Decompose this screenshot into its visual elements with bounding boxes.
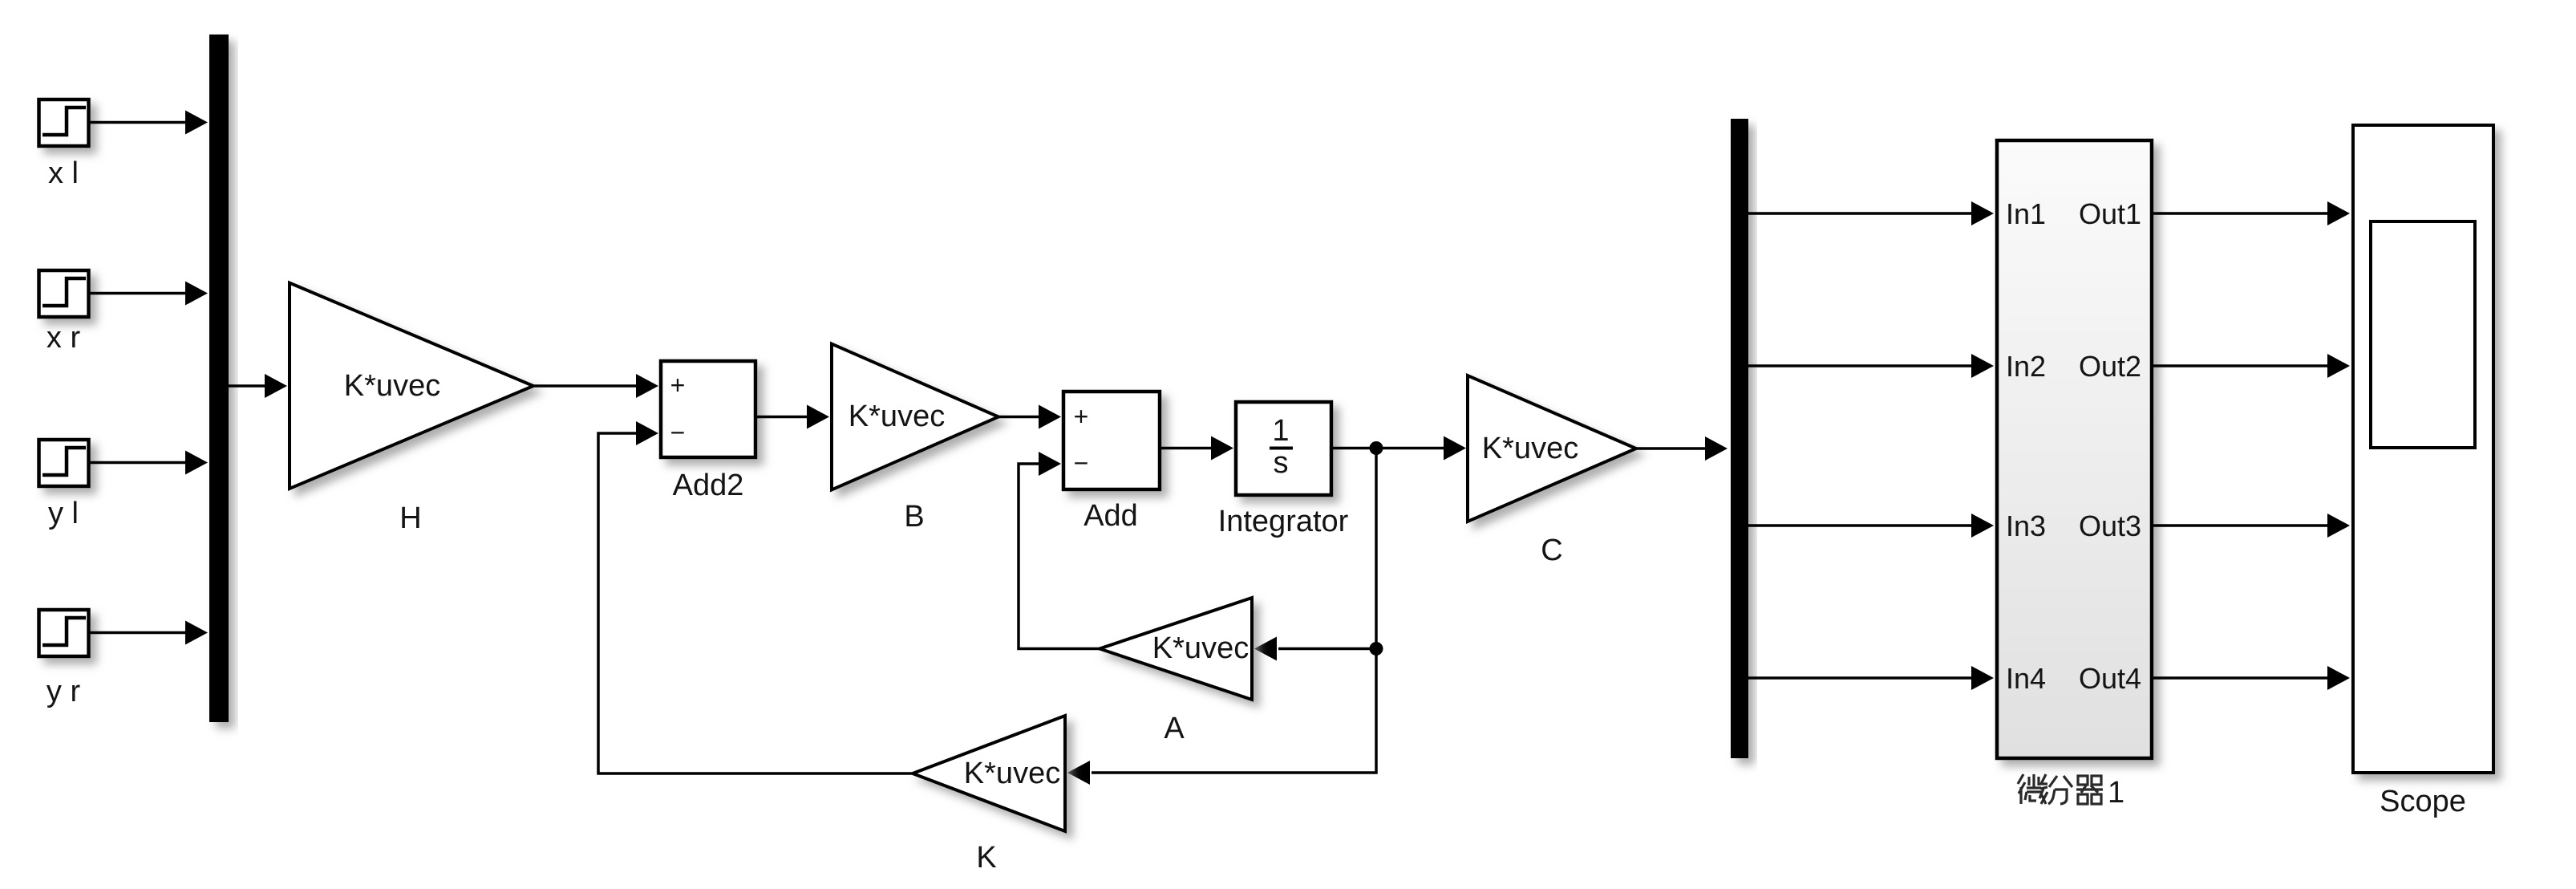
sum block Add2 <box>661 361 755 457</box>
wire demux to In3 <box>1748 524 1972 527</box>
label 微分器1 (drawn glyphs) <box>2018 774 2103 804</box>
svg-text:x l: x l <box>48 156 79 190</box>
subsystem block 微分器1 <box>1997 140 2152 758</box>
wire Out1 to scope <box>2152 212 2328 215</box>
svg-text:K*uvec: K*uvec <box>849 400 945 433</box>
svg-text:In1: In1 <box>2006 197 2046 230</box>
svg-text:Integrator: Integrator <box>1218 505 1349 538</box>
svg-text:Out2: Out2 <box>2079 350 2141 383</box>
svg-text:A: A <box>1164 712 1185 745</box>
svg-text:In4: In4 <box>2006 662 2046 695</box>
step block y l <box>39 440 89 486</box>
svg-text:In2: In2 <box>2006 350 2046 383</box>
svg-text:Out4: Out4 <box>2079 662 2141 695</box>
svg-text:B: B <box>904 500 924 534</box>
scope block <box>2353 125 2493 773</box>
svg-text:K*uvec: K*uvec <box>964 757 1060 790</box>
wire into gain K input <box>1067 761 1090 785</box>
node after integrator <box>1370 441 1383 455</box>
svg-text:−: − <box>670 418 686 447</box>
wire demux to In2 <box>1748 364 1972 367</box>
svg-text:1: 1 <box>1272 414 1289 448</box>
wire Out4 to scope <box>2152 676 2328 680</box>
wire Integrator to gain C <box>1331 447 1444 450</box>
gain B <box>832 344 998 490</box>
svg-text:Out1: Out1 <box>2079 197 2141 230</box>
svg-text:Out3: Out3 <box>2079 509 2141 542</box>
gain H <box>290 283 533 489</box>
svg-text:Scope: Scope <box>2380 785 2466 818</box>
scope screen <box>2371 221 2475 448</box>
svg-text:In3: In3 <box>2006 509 2046 542</box>
demux bar <box>1731 119 1748 758</box>
integrator block 1/s <box>1236 402 1331 495</box>
wire gain B to Add plus input <box>998 416 1039 419</box>
wire gain H to Add2 plus input <box>533 384 637 388</box>
wire feedback vertical drop <box>1092 449 1376 773</box>
wire y r to mux <box>89 631 187 635</box>
svg-text:y r: y r <box>47 675 81 708</box>
svg-text:C: C <box>1541 534 1562 567</box>
wire x r to mux <box>89 292 187 295</box>
gain C <box>1468 375 1636 522</box>
svg-text:s: s <box>1274 446 1289 480</box>
sum block Add <box>1063 392 1160 489</box>
wire mux to gain H <box>229 384 265 388</box>
wire x l to mux <box>89 121 187 124</box>
wire branch to gain A input <box>1278 647 1376 651</box>
step block x l <box>39 99 89 146</box>
wire Add to Integrator <box>1160 447 1211 450</box>
svg-text:x r: x r <box>47 321 81 355</box>
wire y l to mux <box>89 461 187 465</box>
svg-text:K: K <box>976 841 996 875</box>
wire gain C to demux <box>1636 447 1708 450</box>
svg-text:y l: y l <box>48 497 79 530</box>
svg-text:−: − <box>1074 449 1089 477</box>
svg-text:Add2: Add2 <box>673 469 744 502</box>
svg-text:K*uvec: K*uvec <box>1482 432 1578 465</box>
wire gain K to Add2 minus input <box>598 433 913 773</box>
svg-text:K*uvec: K*uvec <box>344 369 440 403</box>
svg-text:+: + <box>1074 402 1089 431</box>
wire Out2 to scope <box>2152 364 2328 367</box>
node at gain A branch <box>1370 642 1383 656</box>
wire demux to In4 <box>1748 676 1972 680</box>
svg-text:+: + <box>670 371 686 400</box>
svg-text:H: H <box>399 501 421 535</box>
gain K (left pointing) <box>913 716 1065 831</box>
wire Out3 to scope <box>2152 524 2328 527</box>
wire Add2 to gain B <box>755 416 808 419</box>
svg-text:Add: Add <box>1083 499 1138 533</box>
wire demux to In1 <box>1748 212 1972 215</box>
step block x r <box>39 270 89 317</box>
svg-text:1: 1 <box>2108 776 2124 810</box>
svg-text:K*uvec: K*uvec <box>1152 631 1249 665</box>
wire gain A to Add minus input <box>1019 464 1100 649</box>
mux bar <box>209 35 229 722</box>
step block y r <box>39 610 89 656</box>
gain A (left pointing) <box>1100 598 1252 700</box>
